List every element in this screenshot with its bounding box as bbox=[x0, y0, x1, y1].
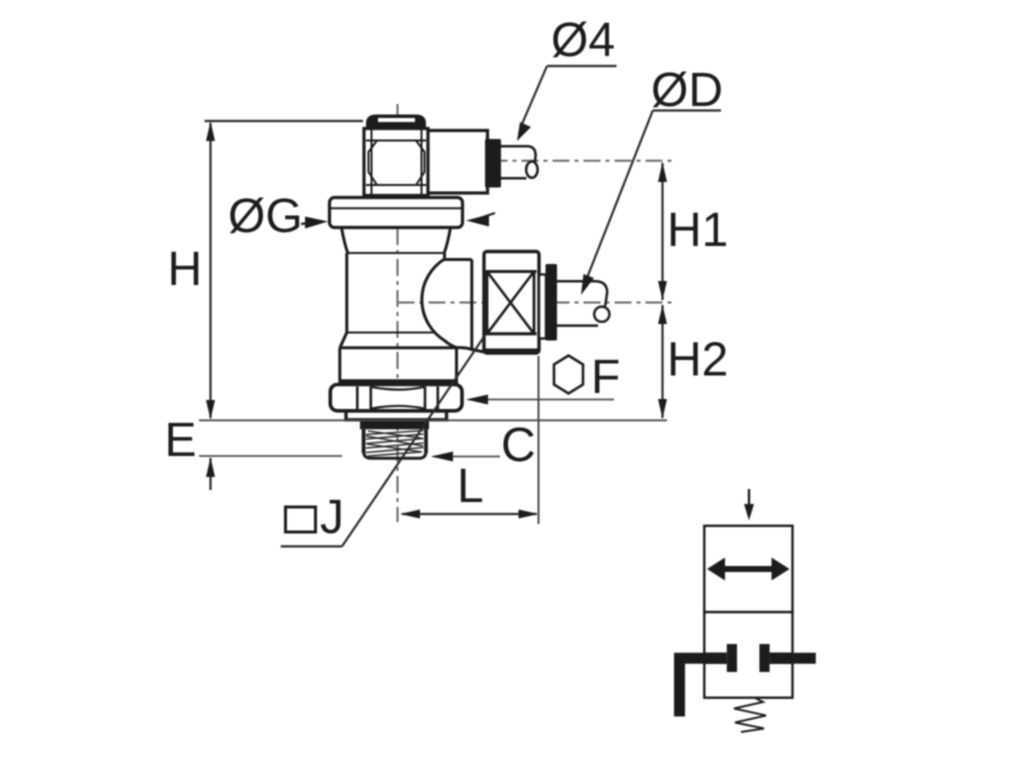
svg-text:H2: H2 bbox=[667, 334, 728, 387]
side collet (black) bbox=[546, 264, 558, 341]
web to side port bbox=[445, 341, 485, 353]
svg-text:L: L bbox=[457, 460, 484, 513]
male thread bbox=[364, 429, 426, 458]
spring bbox=[734, 699, 766, 733]
dimension L bbox=[400, 510, 539, 519]
top connector body bbox=[364, 129, 428, 196]
hex nut bbox=[330, 385, 462, 411]
svg-text:H1: H1 bbox=[667, 204, 728, 257]
svg-text:C: C bbox=[501, 419, 536, 472]
svg-text:F: F bbox=[591, 351, 620, 404]
body cylinder bbox=[347, 253, 445, 333]
svg-text:E: E bbox=[165, 414, 197, 467]
body flange OG bbox=[330, 198, 463, 228]
valve box bottom bbox=[704, 612, 792, 698]
cartridge square with X bbox=[487, 272, 534, 334]
top port block bbox=[428, 131, 488, 194]
side tube ØD bbox=[557, 281, 609, 325]
svg-text:Ø4: Ø4 bbox=[551, 14, 615, 67]
dimension H extension top bbox=[205, 120, 364, 122]
hex symbol + label F bbox=[554, 351, 620, 404]
blocked port T right bbox=[759, 644, 769, 672]
E bottom line bbox=[199, 455, 342, 457]
pilot arrow bbox=[748, 489, 750, 508]
valve symbol bbox=[680, 489, 816, 732]
dimension H1 bbox=[658, 162, 667, 300]
centerline vertical main axis bbox=[397, 104, 399, 522]
body lower collar bbox=[339, 333, 459, 382]
svg-text:ØD: ØD bbox=[651, 64, 723, 117]
port line right bbox=[793, 653, 816, 664]
top tube Ø4 bbox=[501, 146, 538, 178]
dimension C bbox=[431, 452, 500, 462]
side port neck bbox=[445, 260, 472, 351]
dimension F leader bbox=[466, 395, 614, 405]
label OD + leader bbox=[581, 64, 723, 295]
E lower arrow bbox=[206, 458, 215, 491]
blocked port T left bbox=[727, 644, 737, 672]
thread shoulder (black band) bbox=[360, 421, 429, 430]
OG arrows bbox=[301, 213, 495, 229]
dimension H line bbox=[206, 122, 215, 420]
body taper bbox=[342, 228, 348, 254]
label square J + leader bbox=[281, 334, 486, 547]
valve box top bbox=[704, 526, 792, 612]
dimension H2 bbox=[658, 305, 667, 419]
centerline top tube axis bbox=[398, 160, 677, 162]
top connector cap (black) bbox=[367, 116, 425, 130]
svg-text:ØG: ØG bbox=[228, 190, 303, 243]
svg-text:H: H bbox=[168, 243, 203, 296]
L extension line bbox=[538, 356, 540, 524]
collet step bbox=[539, 275, 546, 339]
centerline side tube axis bbox=[398, 302, 677, 304]
port line left (L shape) bbox=[680, 658, 705, 716]
label O4 + leader bbox=[517, 14, 617, 141]
side port cap bbox=[484, 252, 539, 354]
top collet (black) bbox=[485, 139, 501, 188]
baseline y=420 line bbox=[199, 419, 667, 421]
boss arc bbox=[422, 259, 445, 341]
flow double arrow bbox=[707, 558, 790, 581]
svg-text:J: J bbox=[320, 491, 344, 544]
washer bbox=[346, 411, 447, 420]
